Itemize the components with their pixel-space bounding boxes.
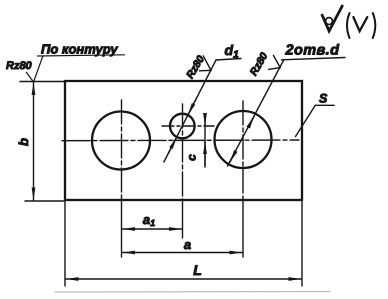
- dimension c line: [204, 114, 206, 167]
- svg-text:d1: d1: [225, 42, 240, 61]
- extension right hole center below plate: [242, 199, 244, 257]
- svg-text:Rz80: Rz80: [248, 50, 271, 77]
- leader 2otv.d arrow upper: [249, 117, 255, 127]
- leader d1 arrow upper: [188, 98, 197, 115]
- svg-text:2отв.d: 2отв.d: [285, 43, 341, 59]
- svg-text:a1: a1: [143, 212, 155, 228]
- svg-text:L: L: [193, 262, 202, 278]
- hole small d1: [170, 114, 195, 139]
- extension left hole center below plate: [121, 199, 123, 257]
- roughness symbol circle: [326, 18, 333, 25]
- roughness check on d1 leader: [200, 56, 212, 71]
- centerline vertical left hole: [121, 100, 123, 199]
- leader d1 shelf: [216, 59, 241, 61]
- dimension b line: [33, 83, 35, 201]
- leader 2otv.d shelf: [282, 58, 346, 60]
- dimension c arrow upper: [204, 115, 206, 126]
- faint scan line bottom: [55, 291, 330, 294]
- check in parens: [353, 17, 367, 31]
- leader d1 diagonal: [164, 60, 216, 162]
- svg-text:a: a: [184, 237, 191, 252]
- centerline vertical right hole: [242, 101, 244, 199]
- extension line L left: [64, 201, 66, 286]
- dimension a line: [123, 252, 243, 254]
- extension line bottom-left for b: [25, 200, 65, 202]
- extension line top-left for b: [20, 81, 65, 83]
- po konturu underline shelf: [38, 55, 125, 56]
- dimension c arrow lower: [204, 142, 206, 167]
- svg-text:b: b: [16, 138, 31, 146]
- roughness symbol top-right: [322, 6, 342, 31]
- paren left: [347, 13, 350, 38]
- hole right large: [215, 111, 272, 168]
- svg-text:По контуру: По контуру: [41, 42, 118, 57]
- leader d1 arrow lower: [168, 137, 176, 154]
- dimension L line: [66, 278, 301, 280]
- roughness check on 2otv.d leader: [269, 55, 281, 69]
- leader S shelf: [315, 104, 334, 106]
- centerline vertical small hole: [182, 104, 184, 199]
- svg-text:c: c: [185, 154, 199, 161]
- centerline horizontal main: [62, 139, 299, 142]
- po konturu check on extension: [26, 56, 42, 82]
- leader 2otv.d diagonal: [228, 60, 285, 167]
- leader 2otv.d arrow lower: [230, 153, 235, 163]
- plate outline: [65, 81, 302, 200]
- centerline horizontal small hole: [162, 125, 214, 127]
- leader S diagonal: [296, 105, 316, 136]
- extension small hole center below plate: [182, 199, 184, 238]
- hole left large: [92, 112, 150, 170]
- dimension a1 line: [123, 228, 182, 230]
- svg-text:S: S: [319, 92, 328, 106]
- svg-text:Rz80: Rz80: [6, 60, 33, 72]
- extension line L right: [301, 201, 303, 286]
- paren right: [373, 13, 376, 38]
